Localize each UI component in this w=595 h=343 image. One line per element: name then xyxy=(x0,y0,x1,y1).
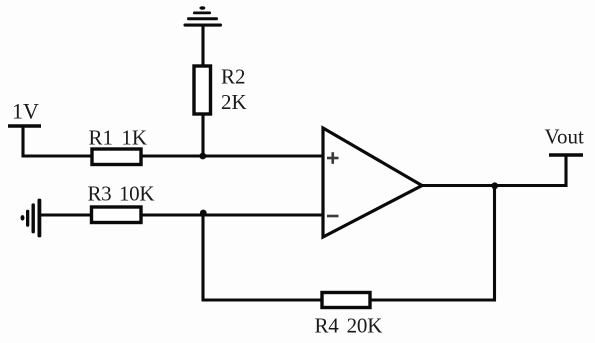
svg-text:R1 1K: R1 1K xyxy=(89,126,148,150)
svg-text:R2: R2 xyxy=(221,65,246,89)
svg-text:R4 20K: R4 20K xyxy=(315,314,383,338)
svg-text:1V: 1V xyxy=(12,99,39,124)
svg-text:2K: 2K xyxy=(221,90,247,114)
svg-text:R3 10K: R3 10K xyxy=(88,182,155,206)
svg-text:Vout: Vout xyxy=(545,125,584,149)
